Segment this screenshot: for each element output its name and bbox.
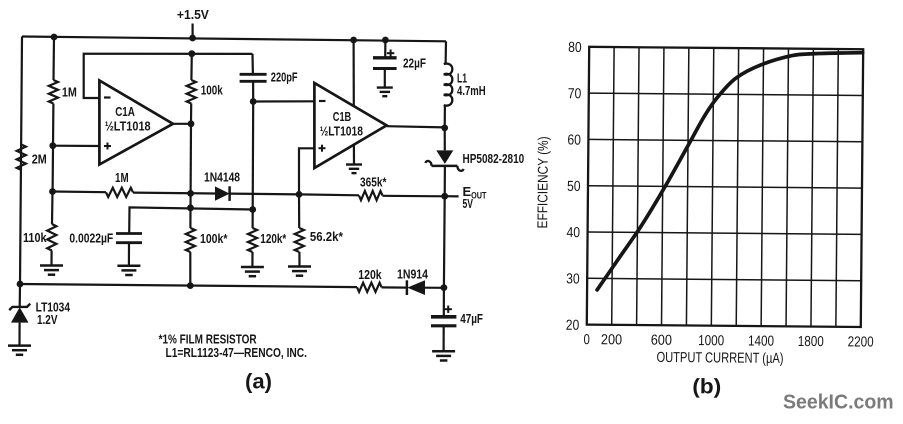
svg-text:40: 40 [567, 225, 581, 241]
svg-text:SeekIC.com: SeekIC.com [783, 392, 894, 414]
svg-text:1M: 1M [115, 170, 129, 185]
svg-text:L1=RL1123-47—RENCO, INC.: L1=RL1123-47—RENCO, INC. [166, 345, 308, 360]
svg-text:2200: 2200 [848, 334, 874, 350]
svg-text:30: 30 [566, 271, 580, 287]
svg-text:120k: 120k [358, 267, 382, 282]
svg-text:220pF: 220pF [271, 70, 298, 85]
svg-text:22µF: 22µF [403, 56, 426, 71]
svg-text:60: 60 [567, 133, 581, 149]
svg-text:EFFICIENCY (%): EFFICIENCY (%) [535, 136, 552, 228]
svg-text:47µF: 47µF [460, 311, 483, 326]
svg-text:110k: 110k [23, 230, 47, 245]
svg-text:120k*: 120k* [260, 231, 287, 246]
svg-text:600: 600 [651, 333, 672, 349]
svg-text:1M: 1M [62, 85, 77, 100]
svg-text:70: 70 [568, 86, 582, 102]
svg-text:0: 0 [583, 332, 589, 348]
svg-text:1000: 1000 [698, 333, 724, 349]
svg-text:1400: 1400 [748, 334, 774, 350]
svg-text:1.2V: 1.2V [37, 312, 58, 327]
svg-text:1800: 1800 [798, 334, 824, 350]
svg-text:0.0022µF: 0.0022µF [69, 231, 113, 246]
svg-text:1N914: 1N914 [397, 266, 429, 281]
svg-text:½LT1018: ½LT1018 [105, 120, 151, 134]
svg-text:1N4148: 1N4148 [204, 169, 240, 184]
svg-text:80: 80 [568, 40, 582, 56]
svg-text:(a): (a) [245, 371, 272, 394]
svg-text:5V: 5V [463, 197, 474, 211]
svg-text:200: 200 [601, 332, 622, 348]
svg-text:100k*: 100k* [200, 231, 228, 246]
svg-text:4.7mH: 4.7mH [457, 83, 486, 98]
svg-text:2M: 2M [32, 152, 47, 167]
svg-text:C1A: C1A [115, 105, 135, 119]
svg-text:56.2k*: 56.2k* [310, 229, 344, 244]
svg-text:20: 20 [566, 318, 580, 334]
svg-text:C1B: C1B [333, 110, 351, 124]
svg-text:+1.5V: +1.5V [177, 7, 209, 22]
svg-text:365k*: 365k* [360, 175, 387, 190]
svg-text:(b): (b) [692, 375, 721, 398]
svg-text:100k: 100k [201, 83, 224, 98]
svg-text:½LT1018: ½LT1018 [320, 125, 363, 139]
svg-text:50: 50 [567, 179, 581, 195]
svg-text:HP5082-2810: HP5082-2810 [463, 151, 525, 166]
svg-text:OUTPUT CURRENT (µA): OUTPUT CURRENT (µA) [656, 350, 783, 367]
